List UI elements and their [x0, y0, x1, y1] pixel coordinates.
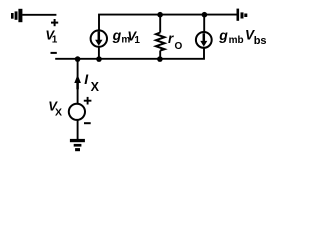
label IX [84, 71, 99, 94]
label gmbVbs [218, 27, 266, 47]
resistor rO [156, 15, 165, 59]
junction node at rO top [157, 12, 163, 18]
wire bottom rail (source node) [55, 48, 204, 59]
label - (VX minus polarity) [84, 122, 91, 124]
wire top rail (drain node to GND2) [99, 15, 237, 30]
svg-text:X: X [91, 80, 100, 94]
label VX [48, 98, 62, 118]
svg-text:g: g [112, 27, 122, 43]
label gmV1 [112, 27, 141, 46]
ground GND1 (top-left, sideways) [11, 9, 22, 22]
junction node at gmV1 bottom [96, 56, 102, 62]
label + (VX plus polarity) [84, 97, 92, 105]
voltage source VX [69, 104, 85, 120]
wire gate stub (GND1 to V1 plus node) [22, 14, 56, 16]
svg-text:bs: bs [254, 35, 267, 47]
wire gmbVbs top to rail [203, 15, 205, 32]
junction node at VX branch [75, 56, 81, 62]
svg-text:O: O [175, 41, 183, 52]
svg-text:1: 1 [52, 35, 58, 46]
junction node at rO bottom [157, 56, 163, 62]
svg-text:mb: mb [229, 35, 244, 46]
wire gmV1 bottom to rail [98, 47, 100, 59]
label - (V1 minus polarity) [51, 52, 57, 54]
ground GND3 (bottom) [70, 139, 85, 151]
label rO [168, 31, 183, 52]
label V1 [45, 28, 57, 46]
label + (V1 plus polarity) [51, 19, 58, 26]
svg-text:1: 1 [134, 35, 140, 46]
junction node at gmbVbs top [202, 12, 208, 18]
current source G2 gmbVbs [196, 32, 212, 48]
wire VX branch (rail to source top) [77, 59, 79, 104]
svg-text:r: r [168, 31, 174, 46]
svg-text:X: X [55, 107, 62, 119]
ground GND2 (top-right, sideways) [237, 9, 248, 21]
current source G1 gmV1 [91, 30, 107, 46]
wire VX bottom to GND3 [77, 120, 79, 139]
arrow Ix (current direction up) [74, 75, 81, 90]
svg-text:g: g [218, 27, 228, 43]
